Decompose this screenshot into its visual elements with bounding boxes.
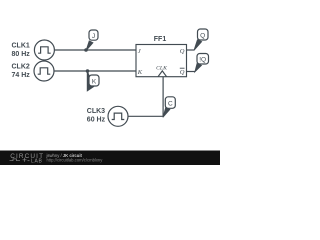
wire CLK2 to K input xyxy=(54,70,136,72)
pin label Qbar xyxy=(180,68,185,76)
svg-text:CLK2: CLK2 xyxy=(12,64,30,71)
svg-text:80 Hz: 80 Hz xyxy=(12,51,31,58)
svg-text:74 Hz: 74 Hz xyxy=(12,72,31,79)
svg-text:Q: Q xyxy=(180,48,185,55)
svg-text:CLK1: CLK1 xyxy=(12,43,30,50)
svg-text:C: C xyxy=(168,101,173,108)
clock source CLK1 xyxy=(34,40,54,60)
svg-text:Q: Q xyxy=(200,32,205,39)
footer bar xyxy=(0,151,220,166)
svg-text:Q: Q xyxy=(180,69,185,76)
svg-text:J: J xyxy=(92,33,95,40)
flag Q xyxy=(194,29,208,51)
wire Q output stub xyxy=(187,49,195,51)
svg-text:FF1: FF1 xyxy=(154,36,167,43)
wire Qbar output stub xyxy=(187,71,196,73)
flag !Q xyxy=(195,54,209,73)
wire CLK3 horizontal xyxy=(128,115,163,117)
footer credit text xyxy=(46,153,104,163)
flag J xyxy=(86,30,98,51)
wire CLK1 to J input xyxy=(54,49,136,51)
clock edge triangle xyxy=(158,71,167,77)
label CLK2 74 Hz xyxy=(12,64,31,80)
node J junction dot xyxy=(84,48,88,52)
svg-text:K: K xyxy=(137,69,143,76)
wire CLK3 vertical to CLK pin xyxy=(162,77,164,117)
svg-text:60 Hz: 60 Hz xyxy=(87,116,106,123)
label CLK1 80 Hz xyxy=(12,43,31,59)
op flip-flop FF1 box xyxy=(136,45,187,77)
svg-text:LAB: LAB xyxy=(31,158,43,164)
node K junction dot xyxy=(86,69,90,73)
svg-text:http://circuitlab.com/c/cmblxn: http://circuitlab.com/c/cmblxny xyxy=(47,158,104,163)
clock source CLK2 xyxy=(34,61,54,81)
flag K xyxy=(87,71,99,91)
svg-text:K: K xyxy=(92,79,97,86)
clock source CLK3 xyxy=(108,106,128,126)
label CLK3 60 Hz xyxy=(87,108,106,123)
flag C xyxy=(163,97,175,118)
svg-text:CLK3: CLK3 xyxy=(87,108,105,115)
svg-text:!Q: !Q xyxy=(199,57,206,64)
footer logo CIRCUIT LAB xyxy=(10,153,45,164)
